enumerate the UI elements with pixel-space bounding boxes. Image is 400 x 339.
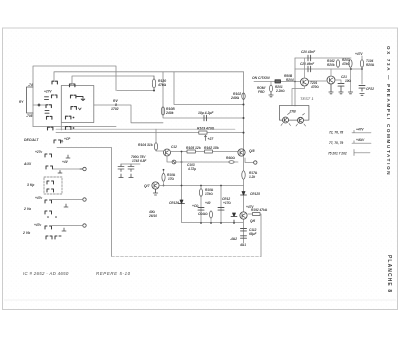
contact k2	[47, 189, 54, 192]
polarized cap C106	[172, 160, 176, 164]
svg-text:TEST 1: TEST 1	[300, 96, 314, 101]
resistor R204	[360, 60, 363, 68]
wire long top bus	[54, 72, 244, 81]
wire mid horizontal	[72, 76, 154, 84]
resistor R162	[205, 150, 213, 153]
svg-text:2 Vb: 2 Vb	[22, 231, 30, 235]
svg-text:C20 46nF: C20 46nF	[300, 62, 315, 66]
svg-text:240Ω: 240Ω	[230, 96, 240, 100]
transistor Q6	[240, 212, 247, 219]
wire top cap line 2	[295, 68, 362, 70]
transistor Q204	[298, 117, 304, 123]
svg-text:CR125: CR125	[250, 192, 260, 196]
svg-text:R192 47kΩ: R192 47kΩ	[251, 208, 268, 212]
svg-text:1748 6.8F: 1748 6.8F	[132, 159, 147, 163]
resistor R103	[199, 131, 207, 134]
contact L4	[47, 116, 52, 119]
ground aux	[58, 171, 62, 174]
svg-text:68μF: 68μF	[249, 232, 257, 236]
contact L5	[48, 127, 53, 130]
wire short 131	[56, 128, 235, 130]
contact aux	[46, 166, 53, 169]
resistor R105	[187, 150, 196, 153]
capacitor C203	[338, 84, 344, 87]
capacitor C111	[218, 208, 224, 211]
svg-text:+47V: +47V	[356, 128, 364, 132]
svg-text:CR126: CR126	[169, 201, 179, 205]
svg-text:72, 76, 78: 72, 76, 78	[329, 131, 343, 135]
transistor Q7	[152, 182, 159, 189]
wire +47 drop	[361, 56, 363, 84]
svg-text:R105 12k: R105 12k	[186, 146, 202, 150]
svg-text:+CΩ: +CΩ	[192, 204, 199, 208]
wire bus 133	[56, 132, 244, 134]
svg-text:2 Va: 2 Va	[23, 207, 31, 211]
ground c105b	[129, 174, 133, 178]
wire box to RV	[94, 105, 163, 123]
svg-text:AUX: AUX	[23, 162, 32, 166]
svg-text:4.72µ: 4.72µ	[187, 167, 196, 171]
resistor R109	[163, 170, 165, 174]
resistor R4 inline	[229, 161, 234, 164]
contact 2vb bottom2	[55, 236, 61, 239]
resistor R108	[161, 107, 164, 115]
svg-text:-74: -74	[28, 83, 33, 87]
wire T201 collector	[304, 58, 306, 78]
capacitor C112	[241, 229, 247, 239]
transistor T201	[301, 78, 309, 86]
svg-text:R20k: R20k	[327, 63, 335, 67]
svg-text:+4V: +4V	[62, 160, 69, 164]
resistor R110	[199, 189, 202, 197]
svg-text:REPERE 5-10: REPERE 5-10	[96, 271, 131, 276]
wire vert 181	[182, 152, 244, 223]
svg-text:FRD: FRD	[258, 90, 265, 94]
svg-text:26/10: 26/10	[148, 214, 157, 218]
contact 2vb bottom1	[46, 236, 52, 239]
svg-text:1702: 1702	[111, 107, 119, 111]
svg-text:+4ΩV: +4ΩV	[356, 138, 365, 142]
resistor R120	[152, 76, 155, 91]
resistor R111	[210, 211, 213, 218]
wire bottom of loop	[33, 126, 116, 128]
svg-text:Q/8: Q/8	[249, 149, 255, 153]
wire vert 201	[200, 186, 202, 224]
wire bracket to contacts	[33, 104, 46, 106]
contact L3	[46, 105, 51, 108]
svg-text:2.2kΩ: 2.2kΩ	[275, 89, 285, 93]
wire 2va out	[52, 199, 82, 201]
ground t3	[62, 228, 66, 231]
wire R120 bottom joint	[117, 90, 154, 92]
diode CR126	[179, 200, 185, 204]
wire T201 Q202 link	[309, 80, 328, 82]
contact 2va top	[45, 200, 52, 203]
transistor Q8	[238, 149, 245, 156]
svg-text:77, 70, 79: 77, 70, 79	[329, 141, 343, 145]
contact k1	[47, 181, 54, 184]
wire top loop	[33, 66, 116, 127]
svg-text:+17Ω: +17Ω	[223, 201, 231, 205]
wire Q202 emitter ground	[329, 84, 333, 94]
transistor Q202	[327, 76, 335, 84]
wire bottom return bus	[112, 256, 262, 258]
node q7 base	[163, 185, 165, 187]
contact B1	[70, 84, 75, 87]
svg-text:CP22: CP22	[366, 87, 374, 91]
wire Q12 collector line	[171, 151, 239, 153]
capacitor C110	[198, 208, 204, 211]
svg-text:-4Ω2: -4Ω2	[230, 237, 237, 241]
svg-text:R104 31k: R104 31k	[138, 143, 154, 147]
transistor Q203	[283, 117, 289, 123]
svg-text:Q/6: Q/6	[250, 219, 255, 223]
box 27B	[279, 106, 309, 121]
svg-text:+40: +40	[205, 201, 211, 205]
svg-text:75 201 7 202: 75 201 7 202	[328, 152, 347, 156]
capacitor C105a	[118, 164, 124, 172]
wire cap line 118	[163, 72, 244, 118]
terminal out Q8	[245, 158, 253, 163]
svg-text:+27V: +27V	[44, 90, 52, 94]
svg-text:17Ω: 17Ω	[168, 177, 175, 181]
wire Q7 base line	[159, 185, 244, 187]
ground Q7	[153, 189, 157, 195]
svg-text:C12: C12	[171, 145, 177, 149]
svg-text:+47V: +47V	[355, 52, 363, 56]
ground t2	[64, 204, 68, 207]
svg-text:-705: -705	[26, 114, 33, 118]
wire box left tail	[60, 123, 62, 131]
terminal 2va	[83, 198, 86, 201]
wire T201 emitter to box	[292, 86, 305, 106]
svg-text:10Ω: 10Ω	[345, 79, 352, 83]
wire aux out	[53, 168, 82, 170]
wire contact L arm	[77, 97, 85, 101]
node dot	[38, 104, 41, 107]
svg-text:240k: 240k	[165, 111, 175, 115]
svg-text:R204: R204	[286, 78, 294, 82]
contact dec	[54, 140, 61, 143]
wire Q12 emitter	[167, 156, 238, 162]
wire input	[254, 81, 300, 83]
wire caps top	[121, 163, 140, 165]
contact B4	[66, 116, 71, 119]
svg-text:+47v: +47v	[34, 223, 41, 227]
wire bottom node line	[200, 222, 202, 224]
wire drop 174	[174, 72, 244, 105]
node 118	[243, 117, 245, 119]
ground c105a	[119, 174, 123, 178]
arrow +27	[205, 135, 207, 140]
capacitor C202	[359, 86, 365, 92]
svg-text:+27v: +27v	[35, 150, 42, 154]
svg-text:CΩΩΩ: CΩΩΩ	[198, 212, 208, 216]
contact B3	[71, 107, 76, 110]
bars L3b	[45, 110, 49, 113]
resistor R192	[248, 213, 253, 215]
wire vert 295	[294, 58, 296, 106]
resistor R171	[242, 171, 245, 179]
ground t1	[66, 155, 70, 158]
ground C202	[360, 94, 364, 96]
mark B3v	[79, 108, 82, 110]
wire right vertical bus	[243, 72, 245, 243]
svg-text:OX 73A — PREAMPLI COMMUTATIO: OX 73A — PREAMPLI COMMUTATION	[386, 46, 391, 176]
wire top cap line 1	[295, 57, 351, 59]
capacitor C105b	[128, 164, 134, 172]
svg-text:47kΩ: 47kΩ	[157, 83, 167, 87]
svg-text:+47v: +47v	[35, 196, 42, 200]
contact L2	[52, 95, 57, 98]
transistor Q12	[164, 149, 171, 156]
svg-text:IC # 2652 - AD 4650: IC # 2652 - AD 4650	[23, 271, 69, 276]
label +CP	[61, 140, 63, 143]
terminal aux	[83, 167, 86, 170]
contact 2vb top	[45, 226, 52, 229]
wire down from R192	[260, 214, 261, 257]
resistor R214 to ground	[270, 82, 272, 86]
component R201	[275, 80, 281, 83]
svg-text:4Ω1: 4Ω1	[239, 243, 246, 247]
node R120 bottom	[153, 90, 155, 92]
svg-text:C20 43nF: C20 43nF	[301, 50, 316, 54]
svg-text:PLANCHE 8: PLANCHE 8	[386, 255, 392, 293]
contact 2va bottom	[45, 211, 52, 214]
capacitor C21	[308, 66, 311, 72]
svg-text:R20Ω: R20Ω	[366, 63, 375, 67]
svg-text:10µ 4.2µF: 10µ 4.2µF	[198, 111, 214, 115]
relay box 3Kp dashed	[44, 177, 62, 194]
resistor R102	[242, 93, 245, 99]
wire R203 ground	[350, 67, 352, 92]
node input	[294, 81, 296, 83]
faint scan band	[4, 299, 396, 301]
wire Q202 top	[330, 69, 332, 76]
wire dec/alt to down bus	[57, 148, 112, 257]
contact +27v	[45, 154, 52, 157]
wire 2vb out	[52, 225, 82, 227]
resistor R104	[155, 129, 157, 142]
capacitor C20	[308, 55, 311, 61]
svg-text:1.2k: 1.2k	[249, 175, 255, 179]
svg-text:17kΩ: 17kΩ	[205, 192, 213, 196]
svg-text:470Ω: 470Ω	[310, 85, 319, 89]
svg-text:R4ΩΩ: R4ΩΩ	[226, 156, 236, 160]
connector bracket RY	[27, 87, 34, 113]
svg-text:+CP: +CP	[64, 137, 71, 141]
node dots 2va	[47, 216, 49, 218]
capacitor C104	[204, 115, 207, 121]
node 133	[243, 132, 245, 134]
svg-text:3 Kp: 3 Kp	[27, 183, 34, 187]
contact B5	[66, 127, 71, 130]
contact B2	[71, 95, 76, 98]
svg-text:DEC/ALT: DEC/ALT	[24, 138, 39, 142]
resistor R203	[349, 60, 352, 68]
diode CR125	[241, 192, 247, 196]
svg-text:R103 470Ω: R103 470Ω	[197, 127, 215, 131]
node e	[181, 161, 183, 163]
pin marks	[281, 124, 306, 127]
svg-text:ON C/TION: ON C/TION	[252, 76, 270, 80]
node dots top	[350, 68, 352, 70]
contact L1	[52, 81, 57, 84]
resistor R202	[336, 60, 339, 68]
terminal 2vb	[83, 224, 86, 227]
diode CR108	[231, 213, 237, 223]
bars L2b	[45, 97, 49, 100]
relay box K1	[61, 86, 94, 123]
svg-text:47kΩ: 47kΩ	[341, 62, 350, 66]
svg-text:R162 15k: R162 15k	[204, 146, 220, 150]
node 104	[243, 104, 245, 106]
wire vert 221	[220, 186, 222, 224]
